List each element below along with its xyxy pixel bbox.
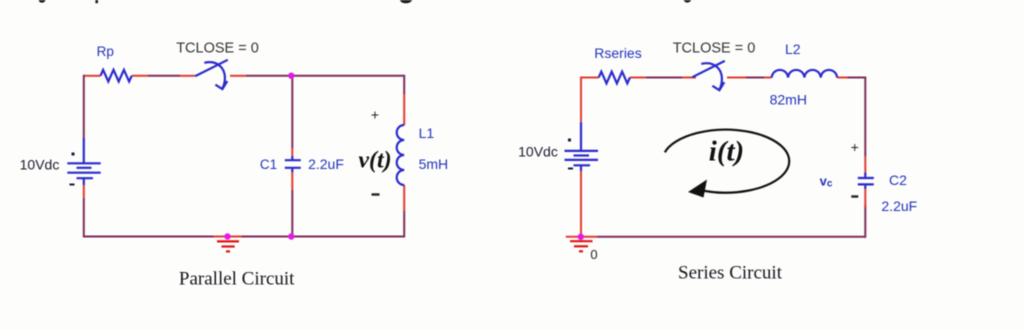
svg-text:2.2uF: 2.2uF (308, 156, 344, 172)
svg-text:2.2uF: 2.2uF (881, 198, 917, 214)
svg-text:0: 0 (590, 247, 597, 262)
svg-text:L2: L2 (785, 41, 801, 57)
svg-text:C2: C2 (889, 172, 907, 188)
svg-text:Series Circuit: Series Circuit (678, 263, 783, 284)
svg-text:C1: C1 (260, 157, 277, 172)
svg-text:82mH: 82mH (770, 92, 807, 108)
svg-text:TCLOSE = 0: TCLOSE = 0 (673, 41, 756, 57)
svg-text:+: + (851, 139, 859, 155)
svg-text:+: + (371, 107, 379, 123)
svg-text:L1: L1 (419, 125, 435, 141)
svg-text:vc: vc (820, 174, 833, 190)
svg-text:TCLOSE = 0: TCLOSE = 0 (176, 41, 259, 57)
svg-text:Parallel Circuit: Parallel Circuit (179, 269, 295, 290)
svg-text:Rseries: Rseries (594, 45, 641, 61)
svg-text:10Vdc: 10Vdc (518, 143, 558, 159)
svg-text:10Vdc: 10Vdc (20, 157, 60, 173)
svg-text:v(t): v(t) (358, 148, 391, 174)
svg-text:Rp: Rp (97, 44, 114, 59)
svg-text:5mH: 5mH (419, 156, 449, 172)
svg-text:i(t): i(t) (709, 136, 744, 168)
